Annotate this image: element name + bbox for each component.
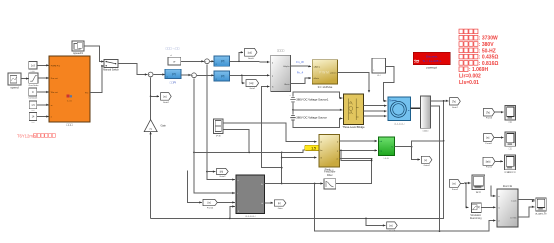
svg-text:□□□□: □□□□ xyxy=(277,49,284,53)
wire w to sum3 xyxy=(181,60,204,62)
dc voltage source 1 xyxy=(290,97,295,102)
wire ia to park in1 xyxy=(223,123,317,142)
svg-text:Goto2: Goto2 xyxy=(163,101,170,104)
svg-text:: 0.816Ω: : 0.816Ω xyxy=(479,61,499,67)
svg-text:uAlpha: uAlpha xyxy=(314,65,321,68)
svg-text:We set: We set xyxy=(51,91,58,94)
park out3 wire xyxy=(339,158,371,160)
long speed feedback wire xyxy=(151,101,444,219)
park transform block xyxy=(319,134,339,167)
goto tag wr xyxy=(387,222,398,229)
bridge output C to motor xyxy=(364,115,387,117)
sum junction sum2 xyxy=(192,73,197,78)
svg-text:Zuv□□H: Zuv□□H xyxy=(503,184,512,188)
svg-text:[iab]: [iab] xyxy=(486,160,491,163)
wire PI1 to sum2 xyxy=(181,74,191,76)
bridge output B to motor xyxy=(364,110,387,112)
wire from tag4 to observer in3 xyxy=(217,201,235,203)
svg-text:Ubeta: Ubeta xyxy=(284,83,290,86)
wire to PWM Fre input xyxy=(37,64,49,66)
pwm generator block xyxy=(312,60,337,84)
svg-text:380V DC Voltage Source1: 380V DC Voltage Source1 xyxy=(296,98,329,102)
svpwm out1 to pwm block xyxy=(291,65,312,67)
svg-text:P W M: P W M xyxy=(319,71,329,75)
svg-text:[e]: [e] xyxy=(278,202,281,205)
goto tag Te xyxy=(450,98,461,105)
wire orange Fre output to switch xyxy=(90,66,104,93)
wire from Te to scope xyxy=(495,111,504,113)
from tag w3 xyxy=(450,180,461,188)
svg-text:w_rpm□Te: w_rpm□Te xyxy=(535,212,547,215)
first-order filter block xyxy=(324,179,336,189)
svg-text:th: th xyxy=(320,156,322,159)
svg-text:□□: □□ xyxy=(509,148,513,151)
filter output wire xyxy=(336,159,372,184)
svg-text:[Te]: [Te] xyxy=(486,111,490,114)
svg-text:Ualpha: Ualpha xyxy=(283,66,290,68)
svg-text:q: q xyxy=(337,150,338,152)
from tag Te xyxy=(484,108,495,116)
svg-text:u: u xyxy=(238,180,239,182)
source block speed xyxy=(8,73,21,85)
svg-text:Real-timing: Real-timing xyxy=(470,217,482,220)
wire ib down to isq net xyxy=(223,129,249,152)
svg-text:Goto4: Goto4 xyxy=(424,164,431,167)
svg-text:w rpm: w rpm xyxy=(511,200,517,202)
wire switch to sum1 xyxy=(118,64,147,75)
svg-text:Gain: Gain xyxy=(161,123,167,127)
svg-text:Goto1: Goto1 xyxy=(249,87,256,90)
svg-text:□□: □□ xyxy=(377,73,381,77)
svg-text:fx_lim: fx_lim xyxy=(67,101,73,103)
wire B to measurement subsystem in3 xyxy=(315,184,496,232)
scope stator current xyxy=(505,155,516,170)
svg-text:Fn_W: Fn_W xyxy=(296,60,304,64)
svg-text:d: d xyxy=(337,142,338,144)
svg-text:[uq]: [uq] xyxy=(249,82,253,85)
svg-text:□□□: □□□ xyxy=(384,156,389,160)
wire isq to park in2 with 1.5 label xyxy=(282,150,317,153)
svg-text:Park□□: Park□□ xyxy=(325,167,334,171)
sum junction sum1 xyxy=(148,72,153,77)
scope torque xyxy=(505,106,515,121)
theta wire to SVPWM in3 xyxy=(261,87,281,168)
svg-text:From4: From4 xyxy=(207,206,214,209)
svg-text:: 380V: : 380V xyxy=(479,42,494,48)
svg-text:d: d xyxy=(498,221,499,223)
svg-text:speed: speed xyxy=(10,86,19,90)
svg-text:From6: From6 xyxy=(486,142,493,145)
wire sum1 to PI1 xyxy=(154,74,165,76)
svg-text:th: th xyxy=(272,86,274,89)
yellow signal label 1.5 xyxy=(305,145,323,150)
flux observer block xyxy=(236,175,265,214)
manual switch xyxy=(104,60,118,68)
svg-text:[Te]: [Te] xyxy=(452,100,456,103)
svg-text:pulses: pulses xyxy=(330,72,336,74)
powergui block xyxy=(413,52,450,65)
park out2 branch down xyxy=(341,150,372,160)
park out1 to torque block in1 xyxy=(339,140,377,142)
svg-text:[ud]: [ud] xyxy=(248,51,252,54)
goto tag usq xyxy=(246,80,259,87)
park out2 to torque block in2 xyxy=(339,149,377,151)
svg-text:□□abc□□□: □□abc□□□ xyxy=(504,171,516,174)
svg-text:From1: From1 xyxy=(486,166,493,169)
zero-order block xyxy=(29,73,38,83)
constant block 1.5 xyxy=(29,101,37,109)
dc+ rail wire xyxy=(293,92,342,98)
bus selector block xyxy=(421,96,431,128)
svg-text:3□□ 2uPulse: 3□□ 2uPulse xyxy=(318,85,333,89)
branch to Goto8 xyxy=(366,218,385,225)
svg-text:Fn_4: Fn_4 xyxy=(297,71,304,75)
bus out1 to goto Te xyxy=(431,100,449,102)
wire PI3 output to SVPWM in2 with branch to Goto1 xyxy=(230,74,270,76)
svg-text:Goto7: Goto7 xyxy=(452,106,459,109)
svg-text:Tm: Tm xyxy=(389,100,392,102)
vertical wire to from tag 4 xyxy=(188,170,202,202)
svg-text:Lls=0.01: Lls=0.01 xyxy=(459,80,479,86)
dc- rail wire xyxy=(293,118,342,127)
svg-text:Llr=0.002: Llr=0.002 xyxy=(459,74,481,80)
svpwm subsystem xyxy=(271,55,291,91)
converter to subsystem in2 xyxy=(482,206,496,208)
svg-text:w□□: w□□ xyxy=(476,191,481,194)
svg-text:ZeroOrder: ZeroOrder xyxy=(28,84,38,87)
svg-text:□□□: □□□ xyxy=(31,70,36,73)
wire constant to We set input xyxy=(37,91,49,93)
svg-text:PI: PI xyxy=(221,74,224,78)
goto tag usd xyxy=(245,48,257,56)
svg-text:q: q xyxy=(272,75,273,77)
constant block 14 xyxy=(29,113,37,121)
PI controller d-axis xyxy=(214,56,230,66)
svg-text:[w]: [w] xyxy=(452,183,455,186)
svg-text:[w]: [w] xyxy=(486,137,489,140)
sum junction sum3 xyxy=(205,59,210,64)
svg-text:th: th xyxy=(261,202,263,205)
svg-text:□□□→□□: □□□→□□ xyxy=(166,46,180,50)
svg-text:Fre set: Fre set xyxy=(51,77,58,80)
wire speed to zero-order xyxy=(21,78,29,80)
wire to input 5 xyxy=(37,116,49,118)
wire from w to scope xyxy=(494,137,504,139)
wire into subsystem in1 xyxy=(491,186,496,196)
svg-text:isq: isq xyxy=(380,151,382,153)
svg-text:1e3: 1e3 xyxy=(31,65,36,68)
svg-text:PWM Fre: PWM Fre xyxy=(51,64,61,67)
load torque block xyxy=(372,58,386,73)
current measurement block IF IB xyxy=(214,119,224,134)
wire to first-order filter xyxy=(282,183,323,185)
svg-text:Goto5: Goto5 xyxy=(248,57,255,60)
wire sum2 to PI3 xyxy=(197,74,214,76)
torque output net xyxy=(394,146,411,148)
wire speed1 to switch xyxy=(84,46,104,62)
constant block 0 xyxy=(29,88,37,96)
svg-text:[th]: [th] xyxy=(220,171,224,174)
scope speed xyxy=(505,132,515,146)
rate converter block xyxy=(472,203,482,213)
svg-text:PI: PI xyxy=(172,72,175,76)
load torque wire to motor Tm xyxy=(384,66,394,101)
wire from iabc to scope xyxy=(495,160,503,162)
goto tag theta xyxy=(217,168,229,174)
svg-text:□□□: □□□ xyxy=(66,123,73,127)
feedback vertical wire into gain xyxy=(150,132,152,219)
svg-text:: 1.069H: : 1.069H xyxy=(469,67,489,73)
svg-text:iF iB: iF iB xyxy=(216,135,221,137)
wire from w3 to scope4 and converter xyxy=(461,182,471,184)
three-level bridge block xyxy=(344,94,364,125)
svpwm out2 to pwm block xyxy=(291,78,312,84)
PI controller speed xyxy=(165,69,181,78)
wire PI2 output to SVPWM in1 with branch to Goto5 xyxy=(230,60,270,63)
svg-text:isd: isd xyxy=(380,141,382,143)
torque estimator green block xyxy=(379,137,395,156)
svg-text:Goto: Goto xyxy=(278,207,284,210)
svg-text:: 0.435Ω: : 0.435Ω xyxy=(479,55,499,61)
wire zero-order to Fre set input xyxy=(38,77,49,79)
PI controller q-axis xyxy=(214,71,230,81)
flux reference block w xyxy=(168,57,181,65)
gain triangle xyxy=(144,120,157,132)
from tag iabc xyxy=(483,157,495,165)
svg-text:Simulation: Simulation xyxy=(470,214,481,217)
wire sum3 to PI2 xyxy=(210,60,214,62)
constant block 1e3 xyxy=(29,62,37,70)
bus out2 wire down xyxy=(431,106,440,231)
svg-text:□□□□□□: □□□□□□ xyxy=(394,121,404,125)
isq feedback vertical from sum2 xyxy=(194,78,235,193)
svg-text:[e]: [e] xyxy=(424,159,427,162)
svg-text:d: d xyxy=(272,62,273,64)
svg-text:380V DC Voltage Source: 380V DC Voltage Source xyxy=(296,116,327,120)
svg-text:speed1: speed1 xyxy=(73,51,83,55)
svg-text:Goto3: Goto3 xyxy=(219,175,226,178)
svg-text:: 50-HZ: : 50-HZ xyxy=(479,48,496,54)
motor m output to bus selector xyxy=(411,107,421,109)
dc voltage source 2 xyxy=(290,115,295,120)
scope rpm xyxy=(536,198,547,211)
observer out2 to goto xyxy=(265,202,274,204)
from tag w2 xyxy=(484,134,495,142)
branch to observer in4 xyxy=(230,206,235,218)
svg-text:1.5: 1.5 xyxy=(311,146,316,150)
vertical distribution wire xyxy=(281,152,283,183)
svg-text:Fr: Fr xyxy=(261,184,263,186)
svg-text:Three-Level Bridge: Three-Level Bridge xyxy=(342,125,365,129)
svg-text:powergui: powergui xyxy=(426,66,437,70)
svg-text:uBeta: uBeta xyxy=(314,77,320,80)
orange converter subsystem xyxy=(49,56,90,122)
svg-text:[is]: [is] xyxy=(208,202,211,205)
svg-text:[w]: [w] xyxy=(163,96,166,99)
svg-text:From5: From5 xyxy=(486,117,493,120)
dc mid rail wire xyxy=(292,103,294,115)
subsystem outputs to scope5 xyxy=(518,199,534,201)
wire to input 4 xyxy=(37,104,49,106)
goto tag w xyxy=(161,93,172,101)
isq distribution horizontal xyxy=(194,151,282,153)
pulses wire to bridge gate xyxy=(338,72,369,91)
feedback wire sum1 down with branch to Goto2 xyxy=(150,78,152,120)
induction motor block xyxy=(388,97,411,121)
goto tag 4 xyxy=(421,156,432,163)
svg-text:Constant: Constant xyxy=(28,97,37,100)
svg-text:: 3730W: : 3730W xyxy=(479,36,498,42)
svg-text:te / Nm: te / Nm xyxy=(510,216,517,219)
svg-text:[w]: [w] xyxy=(389,225,392,228)
svg-text:PI: PI xyxy=(221,60,224,64)
motor parameter annotation red text xyxy=(459,29,463,34)
theta feedback vertical from sum3 with goto branch xyxy=(207,64,235,179)
svg-text:□□□□□□: □□□□□□ xyxy=(245,214,255,218)
from tag 4 xyxy=(203,199,217,205)
svg-text:Manual Switch: Manual Switch xyxy=(103,69,119,72)
scope w speed xyxy=(472,175,485,190)
svg-text:Te: Te xyxy=(391,147,393,149)
observer out1 wire to distribution xyxy=(265,183,282,185)
svg-text:Ts = 1e-005 s.: Ts = 1e-005 s. xyxy=(422,59,442,63)
goto tag observer xyxy=(274,200,286,206)
wire to park in3 xyxy=(282,157,317,159)
bridge output A to motor xyxy=(364,105,387,107)
svg-text:□□PI: □□PI xyxy=(170,81,177,85)
svg-text:From2: From2 xyxy=(452,188,459,191)
svg-text:Filter: Filter xyxy=(327,174,333,177)
source block speed1 xyxy=(72,41,84,51)
svg-text:▲: ▲ xyxy=(238,210,240,213)
svg-text:□□: □□ xyxy=(509,121,513,124)
measurement subsystem xyxy=(497,189,518,227)
svg-text:□□□□: □□□□ xyxy=(423,129,429,132)
